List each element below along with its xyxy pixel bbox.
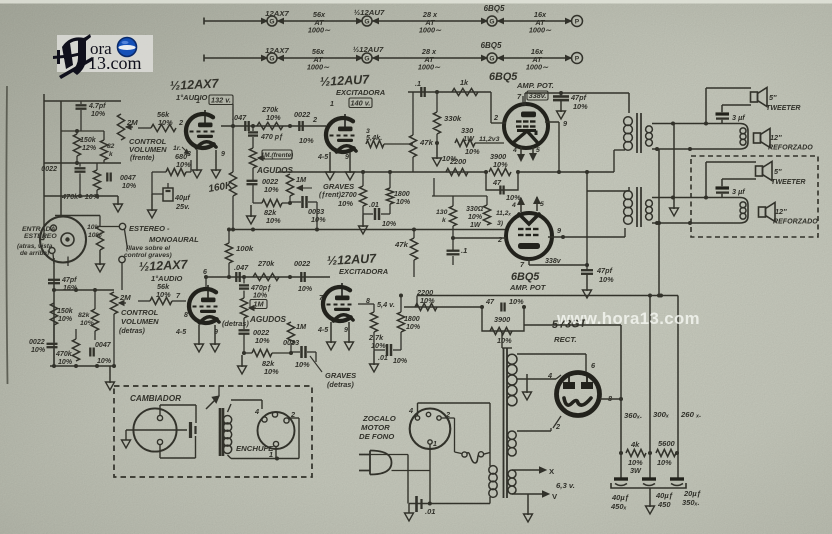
svg-text:2: 2 xyxy=(312,115,317,124)
svg-text:de arriba): de arriba) xyxy=(20,250,49,257)
svg-text:ESTEREO -: ESTEREO - xyxy=(129,224,170,233)
svg-text:P: P xyxy=(575,18,580,25)
svg-text:360ₓ.: 360ₓ. xyxy=(624,411,642,420)
svg-text:10%: 10% xyxy=(573,102,588,111)
svg-text:1000∼: 1000∼ xyxy=(308,26,331,35)
svg-text:20µƒ: 20µƒ xyxy=(683,489,701,498)
svg-text:9: 9 xyxy=(221,151,225,158)
svg-text:VOLUMEN: VOLUMEN xyxy=(129,145,167,154)
svg-text:3 µf: 3 µf xyxy=(732,113,746,122)
svg-text:2: 2 xyxy=(178,118,183,127)
svg-text:ESTEREO: ESTEREO xyxy=(24,233,57,240)
svg-text:6BQ5: 6BQ5 xyxy=(511,271,540,283)
svg-text:AGUDOS: AGUDOS xyxy=(249,315,287,324)
svg-text:47pf: 47pf xyxy=(61,277,77,284)
svg-text:.047: .047 xyxy=(234,263,249,272)
svg-text:.047: .047 xyxy=(232,113,247,122)
svg-text:P: P xyxy=(575,55,580,62)
svg-text:5: 5 xyxy=(540,201,544,208)
svg-text:1: 1 xyxy=(196,98,200,105)
svg-text:AGUDOS: AGUDOS xyxy=(256,166,294,175)
svg-text:1k: 1k xyxy=(460,78,469,87)
svg-text:4-5: 4-5 xyxy=(175,329,187,336)
svg-text:10%: 10% xyxy=(657,458,672,467)
svg-text:0022: 0022 xyxy=(29,339,45,346)
svg-text:ENCHUFE: ENCHUFE xyxy=(236,444,274,453)
svg-text:10%: 10% xyxy=(299,136,314,145)
svg-text:5: 5 xyxy=(536,147,540,154)
svg-text:0047: 0047 xyxy=(120,175,137,182)
svg-text:10%: 10% xyxy=(506,193,521,202)
svg-text:1M.(frente): 1M.(frente) xyxy=(261,152,294,159)
svg-text:330Ω: 330Ω xyxy=(466,206,483,213)
svg-text:EXCITADORA: EXCITADORA xyxy=(339,267,388,276)
svg-text:470 pƒ: 470 pƒ xyxy=(260,134,283,141)
svg-text:VOLUMEN: VOLUMEN xyxy=(121,317,159,326)
svg-text:450: 450 xyxy=(657,500,671,509)
svg-text:1W: 1W xyxy=(463,134,475,143)
svg-text:10%: 10% xyxy=(253,293,268,300)
svg-text:AMP. POT: AMP. POT xyxy=(509,283,547,292)
svg-text:(detras): (detras) xyxy=(327,380,354,389)
svg-text:RECT.: RECT. xyxy=(554,335,577,344)
svg-text:10%: 10% xyxy=(371,341,386,350)
svg-text:0022: 0022 xyxy=(41,166,57,173)
svg-text:47pf: 47pf xyxy=(570,93,588,102)
svg-text:10%: 10% xyxy=(31,347,46,354)
svg-text:4-5: 4-5 xyxy=(317,327,329,334)
svg-text:½12AU7: ½12AU7 xyxy=(319,72,370,89)
svg-text:450ₓ: 450ₓ xyxy=(610,502,627,511)
svg-text:4-5: 4-5 xyxy=(317,154,329,161)
svg-text:47k: 47k xyxy=(394,240,409,249)
svg-text:5600: 5600 xyxy=(658,439,676,448)
svg-text:4: 4 xyxy=(408,406,413,415)
svg-text:10%: 10% xyxy=(80,320,94,327)
svg-text:150k: 150k xyxy=(80,137,97,144)
svg-text:0047: 0047 xyxy=(95,342,112,349)
svg-text:REFORZADO: REFORZADO xyxy=(768,145,813,152)
svg-text:G: G xyxy=(269,55,274,62)
svg-text:10%: 10% xyxy=(58,316,73,323)
svg-text:10%: 10% xyxy=(465,147,480,156)
svg-text:0022: 0022 xyxy=(294,259,310,268)
svg-text:6BQ5: 6BQ5 xyxy=(481,41,502,50)
svg-text:10%: 10% xyxy=(266,113,281,122)
svg-text:G: G xyxy=(364,55,369,62)
svg-text:47: 47 xyxy=(492,178,502,187)
svg-text:82: 82 xyxy=(107,143,115,150)
svg-text:.01: .01 xyxy=(378,355,388,362)
svg-text:MONOAURAL: MONOAURAL xyxy=(149,235,199,244)
svg-text:G: G xyxy=(489,55,494,62)
svg-text:10%: 10% xyxy=(91,111,106,118)
svg-text:(ƒrent)2700: (ƒrent)2700 xyxy=(319,192,357,199)
svg-text:4.7pf: 4.7pf xyxy=(88,103,106,110)
svg-text:DE FONO: DE FONO xyxy=(359,432,394,441)
svg-text:10%: 10% xyxy=(298,286,313,293)
svg-text:140 v.: 140 v. xyxy=(351,99,371,108)
svg-text:5,4 v.: 5,4 v. xyxy=(377,300,395,309)
svg-text:40µƒ: 40µƒ xyxy=(655,491,673,500)
svg-text:V: V xyxy=(552,492,558,501)
svg-text:260 ₓ.: 260 ₓ. xyxy=(680,410,701,419)
svg-text:1800: 1800 xyxy=(404,316,420,323)
svg-text:2: 2 xyxy=(497,235,502,244)
svg-text:4: 4 xyxy=(512,147,517,154)
svg-text:(llave sobre el: (llave sobre el xyxy=(126,245,170,252)
svg-text:10%: 10% xyxy=(599,275,614,284)
svg-text:1000∼: 1000∼ xyxy=(526,63,549,72)
svg-text:12AX7: 12AX7 xyxy=(265,9,289,18)
svg-text:47pf: 47pf xyxy=(596,266,614,275)
svg-text:6BQ5: 6BQ5 xyxy=(484,4,505,13)
svg-text:1M: 1M xyxy=(253,300,264,309)
svg-text:1: 1 xyxy=(330,101,334,108)
svg-text:10%: 10% xyxy=(122,183,137,190)
svg-text:40µf: 40µf xyxy=(174,193,191,202)
svg-text:5″: 5″ xyxy=(774,167,782,176)
svg-text:10%: 10% xyxy=(264,367,279,376)
svg-text:3 µf: 3 µf xyxy=(732,187,746,196)
svg-text:9: 9 xyxy=(345,154,349,161)
svg-text:10%: 10% xyxy=(420,296,435,305)
svg-text:132 v.: 132 v. xyxy=(211,96,231,105)
svg-text:GRAVES: GRAVES xyxy=(323,182,354,191)
svg-text:150k: 150k xyxy=(57,308,74,315)
svg-text:4k: 4k xyxy=(630,440,640,449)
svg-text:10%: 10% xyxy=(338,199,353,208)
svg-text:.01: .01 xyxy=(369,202,379,209)
svg-text:1800: 1800 xyxy=(394,191,410,198)
svg-text:10%: 10% xyxy=(406,324,421,331)
svg-text:½12AU7: ½12AU7 xyxy=(354,8,385,17)
svg-text:40µƒ: 40µƒ xyxy=(611,493,629,502)
svg-text:.1: .1 xyxy=(415,81,421,88)
svg-text:330k: 330k xyxy=(444,114,462,123)
svg-text:10%: 10% xyxy=(176,160,191,169)
svg-text:10%: 10% xyxy=(442,154,457,163)
svg-text:10%: 10% xyxy=(97,358,112,365)
svg-text:10%: 10% xyxy=(266,216,281,225)
svg-text:3W: 3W xyxy=(630,466,642,475)
svg-text:1r.: 1r. xyxy=(173,145,181,152)
svg-text:2M: 2M xyxy=(126,118,138,127)
svg-text:4: 4 xyxy=(254,407,259,416)
svg-text:½12AX7: ½12AX7 xyxy=(138,257,188,274)
svg-text:1: 1 xyxy=(433,441,437,448)
svg-text:½12AU7: ½12AU7 xyxy=(353,45,384,54)
svg-text:1M: 1M xyxy=(296,175,307,184)
svg-text:1000∼: 1000∼ xyxy=(529,26,552,35)
svg-text:82k: 82k xyxy=(78,312,91,319)
svg-text:10%: 10% xyxy=(393,358,408,365)
svg-text:(atras, vista: (atras, vista xyxy=(17,243,53,250)
svg-text:11,2v3: 11,2v3 xyxy=(479,136,500,143)
svg-text:470k: 470k xyxy=(55,351,73,358)
svg-text:8: 8 xyxy=(184,312,188,319)
svg-text:3): 3) xyxy=(497,220,504,227)
svg-text:10%: 10% xyxy=(264,185,279,194)
svg-text:1°AUDIO: 1°AUDIO xyxy=(176,93,208,102)
svg-text:G: G xyxy=(364,18,369,25)
svg-text:2: 2 xyxy=(493,113,498,122)
svg-text:X: X xyxy=(549,467,555,476)
svg-text:½12AU7: ½12AU7 xyxy=(326,251,377,268)
svg-text:10%: 10% xyxy=(497,336,512,345)
svg-text:470pƒ: 470pƒ xyxy=(250,285,271,292)
svg-text:1W: 1W xyxy=(470,222,482,229)
svg-text:5″: 5″ xyxy=(769,93,777,102)
svg-text:6: 6 xyxy=(203,269,207,276)
svg-text:½12AX7: ½12AX7 xyxy=(169,76,219,93)
svg-text:(detras): (detras) xyxy=(119,328,146,335)
svg-text:100k: 100k xyxy=(236,244,254,253)
svg-text:270k: 270k xyxy=(257,259,275,268)
svg-text:10%: 10% xyxy=(509,297,524,306)
svg-text:EXCITADORA: EXCITADORA xyxy=(336,88,385,97)
svg-text:TWEETER: TWEETER xyxy=(766,105,801,112)
svg-text:www.hora13.com: www.hora13.com xyxy=(556,309,700,328)
svg-text:ZOCALO: ZOCALO xyxy=(362,414,396,423)
svg-text:G: G xyxy=(489,18,494,25)
svg-text:9: 9 xyxy=(344,327,348,334)
svg-text:10%: 10% xyxy=(58,359,73,366)
svg-text:ENTRADA: ENTRADA xyxy=(22,226,55,233)
svg-text:G: G xyxy=(269,18,274,25)
svg-text:CONTROL: CONTROL xyxy=(121,308,159,317)
svg-text:6,3 v.: 6,3 v. xyxy=(556,481,575,490)
svg-text:.1: .1 xyxy=(461,246,467,255)
svg-text:0033: 0033 xyxy=(283,338,299,347)
svg-text:.01: .01 xyxy=(425,507,435,516)
svg-text:11,2ₓ: 11,2ₓ xyxy=(496,210,511,217)
svg-text:1000∼: 1000∼ xyxy=(307,63,330,72)
svg-text:12%: 12% xyxy=(82,145,97,152)
svg-text:10%: 10% xyxy=(382,221,397,228)
svg-text:47k: 47k xyxy=(419,138,434,147)
svg-text:10%: 10% xyxy=(396,199,411,206)
svg-text:12AX7: 12AX7 xyxy=(265,46,289,55)
svg-text:13.com: 13.com xyxy=(88,53,142,73)
svg-text:10%: 10% xyxy=(468,214,483,221)
svg-text:TWEETER: TWEETER xyxy=(771,179,806,186)
svg-text:10%: 10% xyxy=(255,336,270,345)
svg-text:338v: 338v xyxy=(545,258,562,265)
svg-text:2M: 2M xyxy=(119,293,131,302)
svg-text:(frente): (frente) xyxy=(130,155,155,162)
svg-text:12″: 12″ xyxy=(770,133,782,142)
svg-text:47: 47 xyxy=(485,297,495,306)
svg-text:GRAVES: GRAVES xyxy=(325,371,356,380)
svg-text:6BQ5: 6BQ5 xyxy=(489,71,518,83)
svg-text:25v.: 25v. xyxy=(175,202,190,211)
svg-text:1000∼: 1000∼ xyxy=(419,26,442,35)
svg-text:(detras): (detras) xyxy=(222,319,249,328)
svg-text:CAMBIADOR: CAMBIADOR xyxy=(130,394,181,403)
svg-text:1M: 1M xyxy=(296,322,307,331)
svg-text:10%: 10% xyxy=(295,360,310,369)
svg-text:130: 130 xyxy=(436,209,448,216)
svg-text:3900: 3900 xyxy=(494,315,510,324)
svg-text:350ₓ.: 350ₓ. xyxy=(682,498,700,507)
svg-text:12″: 12″ xyxy=(775,207,787,216)
svg-text:0022: 0022 xyxy=(294,110,310,119)
svg-text:10%: 10% xyxy=(311,215,326,224)
svg-text:REFORZADO: REFORZADO xyxy=(773,219,818,226)
svg-text:1000∼: 1000∼ xyxy=(418,63,441,72)
svg-text:300ₓ: 300ₓ xyxy=(653,410,670,419)
svg-text:4: 4 xyxy=(511,202,516,209)
svg-text:AMP. POT.: AMP. POT. xyxy=(516,81,554,90)
svg-text:MOTOR: MOTOR xyxy=(361,423,390,432)
svg-text:k: k xyxy=(109,151,113,158)
